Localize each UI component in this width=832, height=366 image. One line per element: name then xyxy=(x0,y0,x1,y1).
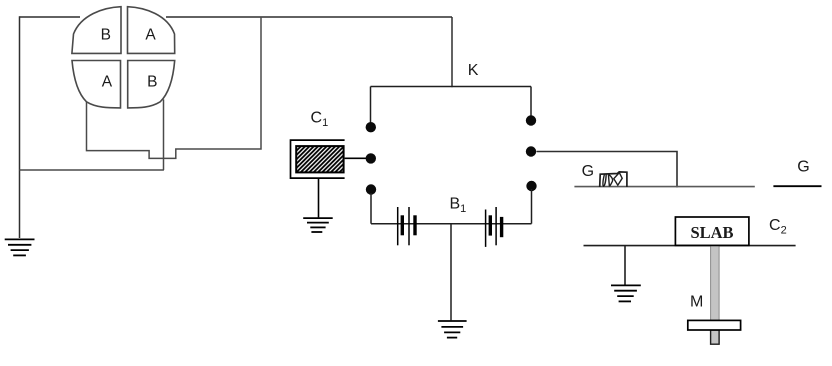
wire: B-quadrant run to left vertical xyxy=(20,169,164,171)
svg-text:G: G xyxy=(582,163,594,180)
wire: C1 ground stem xyxy=(318,178,320,217)
quadrant electrometer: gap mask xyxy=(80,10,166,53)
wire: galvanometer line (gray) xyxy=(574,186,754,188)
galvanometer G: coil loop 3 (diamond) xyxy=(614,173,622,186)
node: contact dot left top xyxy=(366,122,376,132)
svg-text:A: A xyxy=(102,74,113,91)
wire: right bottom contact drop xyxy=(531,189,533,224)
crossbar plate on rod xyxy=(688,320,741,330)
battery B1: left pair of cells xyxy=(398,207,415,245)
wire: C1 to left middle contact xyxy=(345,157,366,159)
quadrant electrometer: quadrant A (bottom-left) xyxy=(72,61,121,108)
rod M: vertical gray bar xyxy=(711,246,720,344)
capacitor C1: hatched plate xyxy=(296,146,343,172)
wire: top bus from left vertical to K drop xyxy=(20,16,453,18)
battery B1: right pair of cells xyxy=(486,207,502,247)
node: contact dot left bottom xyxy=(366,184,376,194)
svg-text:B: B xyxy=(101,27,111,44)
node: contact dot right middle xyxy=(526,146,536,156)
wire: key bridge top bar xyxy=(371,86,532,88)
wire: left vertical down to ground xyxy=(19,16,21,238)
wire: C2 ground stem xyxy=(624,246,626,285)
ground: under battery xyxy=(438,321,467,338)
capacitor C2: slab box xyxy=(675,217,749,245)
ground: under C2 line xyxy=(611,285,641,301)
node: contact dot right bottom xyxy=(526,181,536,191)
wire: key bridge left drop xyxy=(370,87,372,124)
svg-text:C2: C2 xyxy=(769,217,787,237)
quadrant electrometer: quadrant B (top-left) xyxy=(72,7,121,54)
svg-text:C1: C1 xyxy=(311,110,329,130)
wire: right G terminal stub xyxy=(773,185,821,187)
wire: left bottom contact to battery bus xyxy=(370,193,372,224)
galvanometer G: coil loop 2 xyxy=(608,174,612,186)
rod M: lower end below crossbar xyxy=(711,330,720,344)
svg-text:G: G xyxy=(797,158,809,175)
svg-text:B1: B1 xyxy=(450,196,467,216)
wire: right middle contact to galvanometer branch xyxy=(537,152,678,188)
wire: from bottom-right quadrant down xyxy=(163,99,165,170)
galvanometer G: coil bump xyxy=(600,172,627,187)
svg-text:M: M xyxy=(690,294,703,311)
galvanometer G: coil loop 1 xyxy=(603,174,606,186)
wire: capacitor C2 plate line xyxy=(584,245,796,247)
svg-text:A: A xyxy=(145,27,156,44)
quadrant electrometer: quadrant A (top-right) xyxy=(128,7,175,54)
wire: battery bus to ground xyxy=(450,224,452,321)
quadrant electrometer: quadrant B (bottom-right) xyxy=(128,61,175,108)
node: contact dot left middle xyxy=(366,153,376,163)
svg-text:B: B xyxy=(147,74,157,91)
svg-text:K: K xyxy=(468,62,479,79)
ground: bottom-left xyxy=(5,239,35,255)
node: contact dot right top xyxy=(526,115,536,125)
wire: battery bus xyxy=(371,223,532,225)
wire: K drop from top bus xyxy=(451,17,453,87)
wire: from bottom-left quadrant down and jog to top-bus riser xyxy=(87,17,262,158)
wire: key bridge right drop xyxy=(530,87,532,118)
svg-text:SLAB: SLAB xyxy=(690,223,733,242)
ground: under C1 xyxy=(303,218,333,232)
capacitor C1: outer bracket (open right) xyxy=(291,140,345,178)
